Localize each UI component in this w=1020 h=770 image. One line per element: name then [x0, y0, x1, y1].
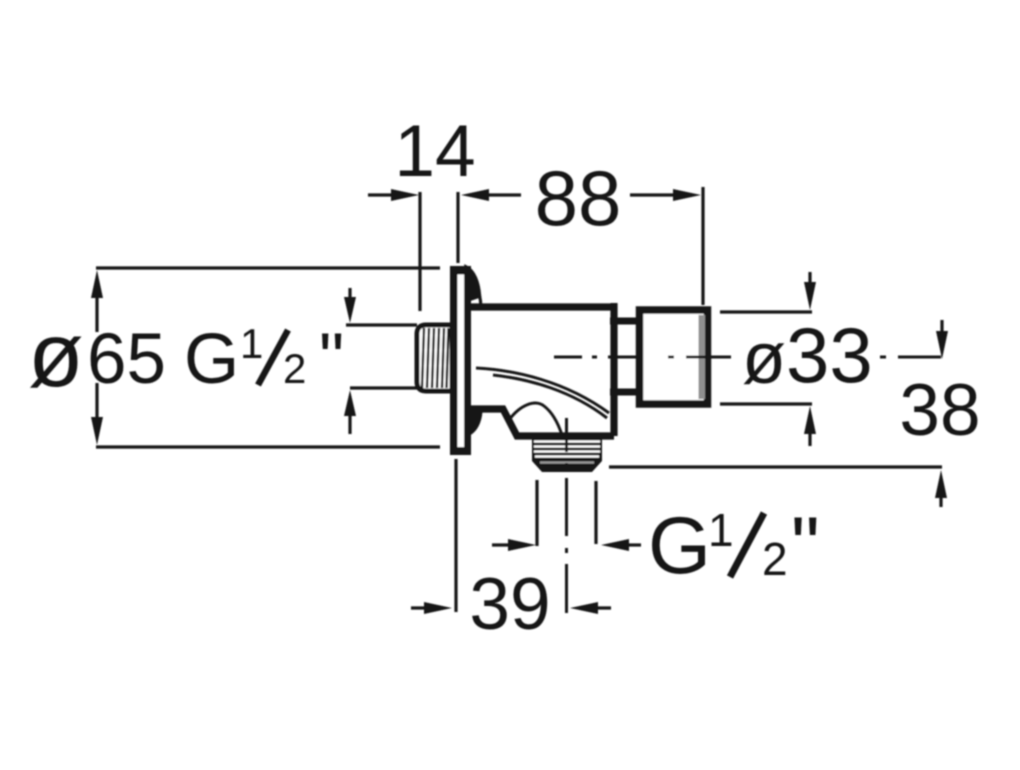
extension line: ø65 top	[96, 266, 440, 269]
svg-text:2: 2	[283, 345, 306, 392]
svg-text:65: 65	[87, 320, 166, 399]
arrow: outlet G1/2 left (points right)	[492, 543, 512, 546]
arrow: 14 left outside	[368, 193, 394, 196]
button face shading band	[699, 315, 706, 399]
extension line: outlet right	[594, 481, 597, 544]
extension line: G1/2 inlet top	[346, 323, 417, 326]
svg-text:39: 39	[469, 564, 550, 645]
arrow: ø65 up	[95, 296, 98, 332]
svg-text:2: 2	[762, 533, 788, 585]
wall flange (escutcheon)	[450, 266, 471, 455]
extension line: 14 right / wall face	[456, 192, 459, 263]
extension line: ø33 bottom	[720, 402, 812, 405]
svg-text:G: G	[648, 501, 711, 591]
arrow: 38 top (down at centreline)	[940, 320, 943, 334]
svg-text:14: 14	[394, 111, 475, 192]
push button ø33	[640, 310, 708, 404]
svg-text:ø: ø	[28, 305, 84, 406]
arrow: outlet G1/2 right (points left)	[625, 543, 641, 546]
arrow: ø33 up	[808, 432, 811, 446]
extension line: ø33 top	[720, 310, 812, 313]
extension line: 14 left (thread face)	[418, 192, 421, 311]
38 bottom reference line	[609, 465, 942, 468]
flow hump over outlet	[509, 403, 562, 435]
arrow: 39 left (points right)	[411, 606, 428, 609]
arrow: 38 bottom (up at line)	[939, 496, 942, 507]
arrow: 88 dimension left (points left at wall face)	[486, 193, 521, 196]
flow curve upper	[476, 368, 609, 413]
extension line: outlet left	[535, 480, 538, 546]
outlet thread G1/2 (bottom)	[532, 436, 602, 472]
arrow: ø33 down	[808, 272, 811, 284]
svg-text:88: 88	[535, 154, 622, 242]
svg-text:G: G	[184, 320, 239, 399]
svg-text:1: 1	[708, 504, 734, 556]
arrow: G1/2 inlet down	[348, 288, 351, 299]
svg-text:ø: ø	[742, 319, 786, 399]
arrow: 88 dimension right (points right at button face)	[630, 193, 676, 196]
push-button stem	[610, 318, 640, 325]
svg-text:1: 1	[240, 320, 263, 367]
svg-text:": "	[319, 320, 344, 399]
extension line: G1/2 inlet bottom	[350, 386, 417, 389]
svg-text:": "	[791, 501, 820, 591]
extension line: 88 right (button face)	[701, 187, 704, 305]
horizontal centreline dash-dot	[554, 356, 582, 359]
vertical outlet centreline dash-dot	[565, 418, 568, 452]
extension line: 39 left (flange back face)	[454, 459, 457, 612]
inlet thread G1/2	[417, 325, 452, 391]
svg-text:38: 38	[899, 370, 980, 451]
svg-text:33: 33	[786, 311, 873, 399]
arrow: ø65 down	[95, 383, 98, 419]
valve body outline	[469, 303, 614, 436]
arrow: G1/2 inlet up	[348, 414, 351, 434]
flow curve lower	[493, 375, 607, 418]
extension line: ø65 bottom	[96, 445, 440, 448]
arrow: 39 right (points left at centreline)	[594, 606, 611, 609]
